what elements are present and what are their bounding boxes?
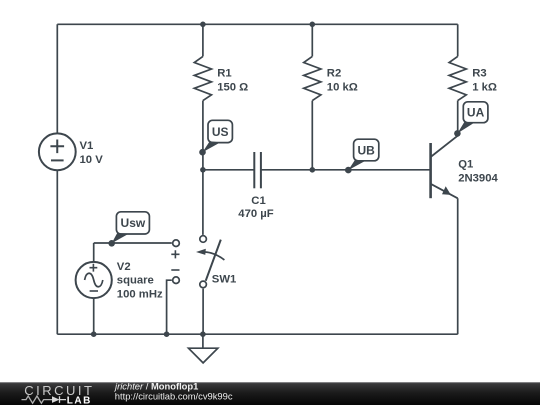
svg-text:UB: UB [358, 143, 376, 157]
wire C1 left [203, 169, 254, 171]
label R3 value [472, 67, 497, 93]
svg-text:R2: R2 [327, 67, 341, 79]
label SW1 [212, 273, 236, 285]
svg-text:SW1: SW1 [212, 273, 236, 285]
svg-text:US: US [212, 125, 229, 139]
svg-text:V2: V2 [117, 261, 131, 273]
label V1 value [80, 140, 104, 166]
switch control plus terminal [171, 240, 179, 259]
svg-text:R3: R3 [472, 67, 486, 79]
label R2 value [327, 67, 358, 93]
switch SW1 [196, 236, 224, 288]
svg-text:Usw: Usw [121, 216, 146, 230]
svg-text:1 kΩ: 1 kΩ [472, 82, 497, 94]
svg-text:square: square [117, 274, 154, 286]
wire R2 bottom lead [311, 101, 313, 170]
switch control minus terminal [171, 270, 179, 284]
wire left rail upper (V1 top lead) [56, 24, 58, 133]
junction ground rail [200, 331, 206, 337]
junction control minus rail [164, 331, 170, 337]
resistor R1 [194, 56, 211, 100]
capacitor C1 [254, 152, 261, 188]
svg-text:Q1: Q1 [458, 158, 473, 170]
resistor R2 [304, 56, 321, 100]
wire switch control minus to ground rail [167, 280, 172, 334]
svg-text:2N3904: 2N3904 [458, 173, 498, 185]
svg-text:V1: V1 [80, 140, 94, 152]
footer logo resistor-diode glyph [22, 396, 67, 403]
svg-text:http://circuitlab.com/cv9k99c: http://circuitlab.com/cv9k99c [115, 390, 233, 401]
junction C1 left node [200, 167, 206, 173]
wire C1 right to base [261, 169, 431, 171]
node flag US [199, 120, 232, 155]
wire R3 bottom lead to collector [457, 101, 459, 136]
svg-text:10 kΩ: 10 kΩ [327, 82, 358, 94]
label V2 value [117, 261, 163, 301]
wire R2 top lead [311, 24, 313, 56]
wire R1 top lead [202, 24, 204, 56]
svg-text:UA: UA [467, 105, 485, 119]
node flag UA [454, 102, 488, 137]
label C1 value [238, 195, 273, 220]
footer bar [0, 382, 540, 405]
node flag Usw [108, 212, 149, 247]
node flag UB [345, 139, 379, 173]
resistor R3 [449, 56, 466, 100]
label R1 value [217, 67, 248, 93]
voltage source V2 (square) [76, 262, 112, 298]
wire R1 bottom to switch [202, 101, 204, 235]
label Q1 value [458, 158, 498, 184]
footer url text [115, 390, 233, 401]
wire R3 top lead [457, 24, 459, 56]
svg-text:10 V: 10 V [80, 154, 104, 166]
junction V2 bottom rail [91, 331, 97, 337]
junction top rail R1 [200, 22, 206, 28]
wire V2 to switch control plus [94, 242, 172, 244]
wire top rail [57, 23, 457, 25]
wire bottom rail [57, 333, 457, 335]
wire V2 top lead [93, 243, 95, 262]
svg-text:C1: C1 [251, 195, 265, 207]
voltage source V1 [39, 133, 76, 170]
svg-text:LAB: LAB [67, 395, 92, 405]
junction top rail R2 [310, 22, 316, 28]
footer logo CIRCUIT [24, 383, 94, 398]
svg-text:470 µF: 470 µF [238, 208, 273, 220]
wire left rail lower (V1 bottom lead) [56, 170, 58, 334]
junction R2 base node [310, 167, 316, 173]
wire SW1 bottom lead [202, 289, 204, 335]
svg-text:R1: R1 [217, 67, 231, 79]
ground [189, 334, 218, 363]
footer logo LAB [67, 395, 92, 405]
footer title text [113, 380, 198, 391]
wire Q1 emitter lead [457, 198, 459, 334]
svg-text:150 Ω: 150 Ω [217, 82, 248, 94]
wire V2 bottom lead [93, 298, 95, 334]
svg-text:100 mHz: 100 mHz [117, 288, 163, 300]
transistor Q1 [431, 136, 458, 199]
